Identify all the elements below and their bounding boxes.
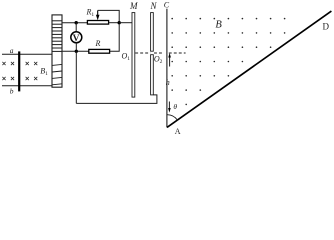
resistor R [89,49,110,53]
rheostat slider arrow [97,10,99,16]
h dimension lower arrow [168,102,170,110]
node dot left [75,21,78,24]
svg-text:θ: θ [173,102,177,111]
rail a [2,53,52,55]
svg-text:b: b [10,87,14,96]
h dimension upper arrow [169,57,171,67]
svg-text:A: A [175,127,181,136]
wire R right and up to node [110,24,120,51]
bottom wire [76,95,157,104]
svg-text:V: V [73,34,80,44]
svg-text:a: a [10,46,14,55]
slider tap wire [98,10,120,22]
svg-text:B: B [215,20,222,31]
plate N lower [151,55,154,95]
rod on rails [18,51,20,91]
svg-text:R: R [95,39,101,48]
field B1 cross marks [2,62,37,80]
wire coil to R1 row [62,22,87,24]
resistor R1 [87,21,108,25]
wire coil to R row [62,50,89,52]
voltmeter V [71,32,82,43]
svg-text:N: N [150,1,158,11]
wire node to plate M [119,22,132,24]
node dot right [118,21,121,24]
wire R1 to node [109,22,120,24]
svg-text:D: D [323,22,330,32]
coil lower slanted lines [52,64,62,84]
line A to D [167,11,331,127]
angle arc theta [167,115,178,121]
transformer coil box [52,15,62,87]
wire down from R row node [75,51,77,103]
coil winding dense lines [52,21,62,52]
rail b [2,85,52,87]
plate N upper [151,13,154,52]
node dot R row [75,50,78,53]
svg-text:M: M [129,1,138,11]
svg-text:h: h [166,78,170,87]
wire voltmeter to R row [75,43,77,52]
boundary line C-A [166,9,168,128]
svg-text:C: C [164,1,170,10]
field B dots [171,18,285,105]
beam axis dashed line [135,52,185,54]
wire node down to voltmeter [75,23,77,32]
plate M [132,13,135,98]
